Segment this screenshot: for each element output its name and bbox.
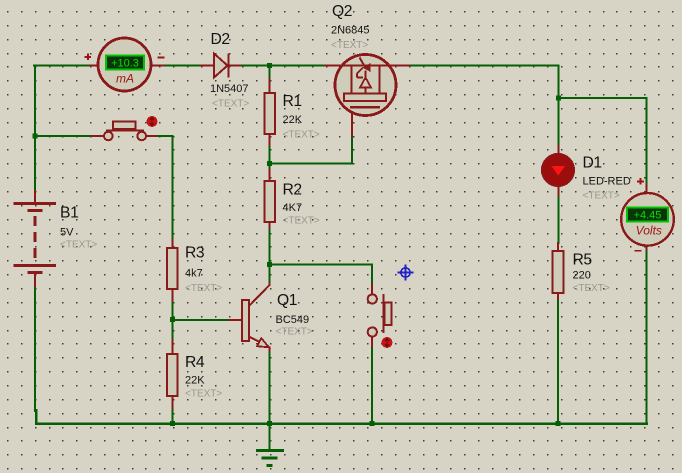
label R1 value 22K xyxy=(283,114,303,126)
svg-text:1N5407: 1N5407 xyxy=(210,83,249,95)
label D1 text xyxy=(583,191,620,202)
svg-text:<TEXT>: <TEXT> xyxy=(185,389,222,400)
wire node B to voltmeter corner xyxy=(559,98,647,187)
label D1 ref xyxy=(583,155,602,172)
svg-text:5V: 5V xyxy=(60,227,74,239)
D1 cathode pin xyxy=(558,186,560,197)
resistor R1 xyxy=(265,93,276,134)
wire voltmeter to bottom rail xyxy=(645,252,647,424)
label B1 value 5V xyxy=(60,227,74,239)
svg-text:+4.45: +4.45 xyxy=(634,210,662,222)
voltmeter bottom pin xyxy=(646,245,648,253)
wire SW2 to bottom rail xyxy=(371,348,373,424)
SW2 top pin xyxy=(371,285,373,294)
svg-text:R3: R3 xyxy=(185,245,205,262)
Q2 source pin xyxy=(325,65,335,67)
D2 anode pin xyxy=(201,65,214,67)
ammeter right pin xyxy=(150,65,166,67)
label R1 text xyxy=(283,130,320,141)
label R3 text xyxy=(185,283,222,294)
wire R1 to node C xyxy=(268,147,270,164)
SW2 bottom pin xyxy=(371,337,373,348)
junction node C xyxy=(267,161,272,166)
wire bottom rail xyxy=(36,410,647,424)
junction node D xyxy=(267,262,272,267)
svg-text:22K: 22K xyxy=(185,375,205,387)
junction node left rail xyxy=(33,134,38,139)
label Q2 text xyxy=(331,40,368,51)
svg-text:<TEXT>: <TEXT> xyxy=(573,283,610,294)
label Q1 value BC549 xyxy=(276,314,310,326)
svg-text:22K: 22K xyxy=(283,114,303,126)
voltmeter plus terminal xyxy=(637,178,644,185)
ammeter minus terminal xyxy=(158,57,165,59)
svg-text:<TEXT>: <TEXT> xyxy=(283,216,320,227)
R3 bottom pin xyxy=(172,289,174,303)
svg-text:R4: R4 xyxy=(185,354,205,371)
transistor Q1 xyxy=(242,300,249,341)
svg-text:B1: B1 xyxy=(60,205,78,222)
D1 anode pin xyxy=(558,146,560,155)
Q1 collector pin xyxy=(249,283,270,306)
wire battery bottom to rail xyxy=(34,286,36,411)
svg-text:<TEXT>: <TEXT> xyxy=(331,40,368,51)
R5 bottom pin xyxy=(557,293,559,301)
svg-text:<TEXT>: <TEXT> xyxy=(60,240,97,251)
label R2 ref xyxy=(283,182,302,199)
svg-text:<TEXT>: <TEXT> xyxy=(276,327,313,338)
battery B1 xyxy=(14,204,57,273)
Q1 emitter pin with arrow xyxy=(249,337,270,354)
D2 cathode pin xyxy=(229,65,242,67)
resistor R4 xyxy=(167,354,178,396)
junction node A xyxy=(267,63,272,68)
wire R3 to node E xyxy=(171,303,173,320)
svg-text:BC549: BC549 xyxy=(276,314,310,326)
svg-text:2N6845: 2N6845 xyxy=(331,25,370,37)
wire left rail to button SW1 xyxy=(35,135,92,137)
label Q1 text xyxy=(276,327,313,338)
SW2 actuate marker xyxy=(382,337,393,348)
R5 top pin xyxy=(557,243,559,251)
wire node E to Q1 base xyxy=(173,319,230,321)
label R4 text xyxy=(185,389,222,400)
R2 top pin xyxy=(269,169,271,181)
svg-text:R2: R2 xyxy=(283,182,302,199)
label Q2 value 2N6845 xyxy=(331,25,370,37)
wire node D to Q1 collector xyxy=(268,265,270,284)
diode D2 xyxy=(214,54,229,78)
origin marker crosshair xyxy=(397,264,413,280)
R4 bottom pin xyxy=(172,396,174,410)
ammeter left pin xyxy=(90,65,99,67)
ammeter instrument xyxy=(98,38,151,91)
label R5 text xyxy=(573,283,610,294)
SW1 right pin xyxy=(146,135,158,137)
svg-text:4k7: 4k7 xyxy=(185,268,203,280)
label R4 ref xyxy=(185,354,205,371)
label D2 value 1N5407 xyxy=(210,83,249,95)
SW1 actuate marker xyxy=(147,116,158,127)
label R5 value 220 xyxy=(573,270,591,282)
svg-text:R1: R1 xyxy=(283,93,302,110)
button SW2 xyxy=(368,294,392,337)
svg-text:D1: D1 xyxy=(583,155,602,172)
junction node E xyxy=(170,317,175,322)
resistor R2 xyxy=(265,181,276,222)
wire D2 to node A xyxy=(242,64,325,66)
wire node C to Q2 gate xyxy=(270,136,353,164)
label R5 ref xyxy=(573,252,593,269)
button SW1 xyxy=(104,122,146,141)
wire node C to R2 xyxy=(268,164,270,170)
svg-text:D2: D2 xyxy=(211,31,230,48)
Q2 gate pin xyxy=(351,107,353,136)
svg-text:4K7: 4K7 xyxy=(283,202,303,214)
voltmeter minus terminal xyxy=(635,250,642,252)
label B1 text xyxy=(60,240,97,251)
battery top pin xyxy=(34,191,36,202)
ammeter plus terminal xyxy=(85,53,92,60)
label D2 ref xyxy=(211,31,230,48)
R3 top pin xyxy=(172,240,174,248)
label R4 value 22K xyxy=(185,375,205,387)
wire Q2 to right corner xyxy=(411,66,559,99)
junction node B xyxy=(556,96,561,101)
resistor R3 xyxy=(167,248,178,289)
wire R5 to bottom rail xyxy=(557,301,559,424)
wire SW1 to R3 xyxy=(158,136,173,240)
voltmeter instrument xyxy=(621,193,674,246)
wire R4 to bottom rail xyxy=(171,410,173,424)
junction rail R5 xyxy=(556,421,561,426)
Q1 base pin xyxy=(229,319,242,321)
R1 top pin xyxy=(269,79,271,93)
svg-text:mA: mA xyxy=(116,72,134,86)
wire R2 to node D xyxy=(268,230,270,265)
svg-text:LED-RED: LED-RED xyxy=(583,176,631,188)
voltmeter top pin xyxy=(646,185,648,194)
label R3 value 4k7 xyxy=(185,268,203,280)
wire node D to button SW2 xyxy=(270,265,373,286)
label B1 ref xyxy=(60,205,78,222)
label Q2 ref xyxy=(332,3,352,20)
battery bottom pin xyxy=(34,274,36,286)
junction rail ground xyxy=(267,421,272,426)
R1 bottom pin xyxy=(269,134,271,147)
svg-text:<TEXT>: <TEXT> xyxy=(283,130,320,141)
svg-text:Q1: Q1 xyxy=(277,292,297,309)
Q2 drain pin xyxy=(396,65,411,67)
svg-text:Volts: Volts xyxy=(636,224,662,238)
junction rail SW2 xyxy=(370,421,375,426)
wire node B down to D1 xyxy=(557,98,559,146)
ground xyxy=(256,451,284,466)
R2 bottom pin xyxy=(269,222,271,230)
SW1 left pin xyxy=(92,135,104,137)
wire node E to R4 xyxy=(171,320,173,341)
wire ammeter to D2 xyxy=(166,64,201,66)
label R2 value 4K7 xyxy=(283,202,303,214)
svg-text:<TEXT>: <TEXT> xyxy=(185,283,222,294)
label R2 text xyxy=(283,216,320,227)
led D1 xyxy=(542,154,575,187)
wire node A down to R1 xyxy=(268,66,270,80)
wire left rail top: battery top to top rail xyxy=(34,66,36,192)
label Q1 ref xyxy=(277,292,297,309)
svg-text:<TEXT>: <TEXT> xyxy=(583,191,620,202)
junction rail R4 xyxy=(170,421,175,426)
svg-text:+10.3: +10.3 xyxy=(111,58,139,70)
wire rail to ground xyxy=(268,424,270,449)
wire Q1 emitter to bottom rail xyxy=(268,353,270,424)
label D2 text xyxy=(212,99,249,110)
wire top rail: left corner to ammeter xyxy=(34,64,90,66)
resistor R5 xyxy=(553,251,564,293)
wire D1 to R5 xyxy=(557,197,559,243)
svg-text:<TEXT>: <TEXT> xyxy=(212,99,249,110)
svg-text:Q2: Q2 xyxy=(332,3,352,20)
label D1 value LED-RED xyxy=(583,176,631,188)
svg-text:220: 220 xyxy=(573,270,591,282)
label R1 ref xyxy=(283,93,302,110)
R4 top pin xyxy=(172,340,174,354)
label R3 ref xyxy=(185,245,205,262)
svg-text:R5: R5 xyxy=(573,252,593,269)
mosfet Q2 xyxy=(335,55,396,116)
